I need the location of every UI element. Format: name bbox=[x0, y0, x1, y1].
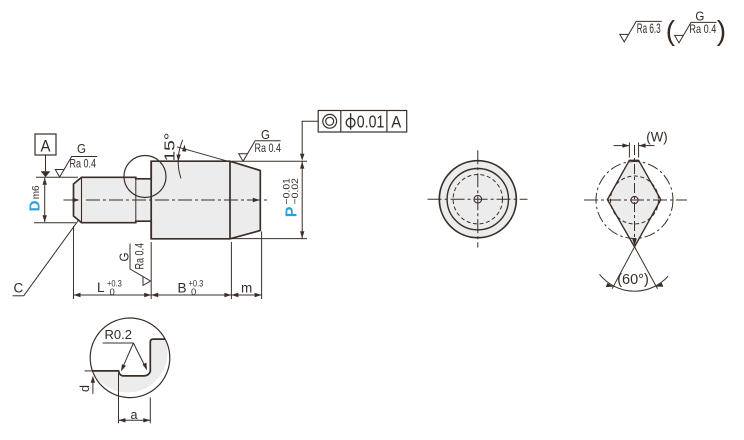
D dim arrow down bbox=[43, 215, 47, 222]
R0.2 leader left arrowline bbox=[122, 343, 133, 369]
B arrow left bbox=[151, 293, 158, 297]
datum filled triangle bbox=[41, 171, 51, 177]
60 degree V right line bbox=[635, 247, 658, 289]
m arrow right bbox=[255, 293, 262, 297]
general roughness note Ra6.3 symbol bbox=[620, 21, 662, 42]
svg-text:(W): (W) bbox=[646, 129, 667, 145]
W arrow right bbox=[639, 143, 646, 147]
surface finish symbol G Ra0.4 on taper bbox=[239, 141, 281, 162]
svg-text:C: C bbox=[14, 281, 24, 296]
detail view profile line bbox=[92, 339, 165, 376]
60 degree arc bbox=[600, 274, 669, 291]
undercut groove wall line bbox=[135, 179, 137, 221]
centerline left arrow bbox=[73, 198, 80, 202]
front view center hole circle bbox=[474, 195, 482, 203]
svg-text:A: A bbox=[391, 114, 401, 132]
centerline right arrow bbox=[253, 198, 260, 202]
L arrow right bbox=[144, 293, 151, 297]
W dimension lines bbox=[614, 145, 630, 147]
front view hidden pin circle bbox=[453, 175, 502, 224]
front view taper face circle bbox=[447, 169, 508, 230]
leader arrow down bbox=[300, 154, 304, 161]
R0.2 leader bar bbox=[103, 342, 134, 344]
P top extension line bbox=[232, 160, 307, 162]
svg-text:m: m bbox=[241, 281, 252, 296]
C leader underline bbox=[13, 295, 24, 297]
svg-text:(60°): (60°) bbox=[617, 272, 649, 288]
detail view balloon circle bbox=[90, 318, 170, 398]
svg-text:Ra 0.4: Ra 0.4 bbox=[689, 22, 716, 36]
svg-text:m6: m6 bbox=[31, 185, 42, 199]
datum stem bbox=[45, 155, 47, 171]
a dimension line bbox=[119, 419, 151, 421]
svg-text:B: B bbox=[178, 281, 187, 296]
svg-text:(: ( bbox=[666, 15, 676, 46]
a left extension line bbox=[118, 373, 120, 423]
D dimension line bbox=[44, 178, 46, 222]
taper start edge line bbox=[229, 161, 231, 239]
a arrow left bbox=[119, 418, 126, 422]
svg-text:Ra 0.4: Ra 0.4 bbox=[255, 141, 282, 155]
diamond pin fill bbox=[607, 160, 660, 247]
diamond center hole bbox=[631, 196, 638, 203]
B/m shared extension bbox=[230, 242, 232, 299]
note G Ra0.4 symbol bbox=[675, 22, 717, 43]
m right extension bbox=[261, 232, 263, 300]
diamond pin outline bbox=[607, 160, 660, 247]
60 degree V left line bbox=[612, 247, 634, 289]
svg-text:A: A bbox=[41, 138, 51, 156]
W extension lines bbox=[628, 143, 630, 158]
concentricity symbol bbox=[323, 114, 337, 128]
diamond horizontal centerline bbox=[584, 199, 687, 201]
svg-text:Ra 6.3: Ra 6.3 bbox=[637, 20, 661, 36]
D dimension top extension line bbox=[36, 176, 78, 178]
diamond view hidden pin circle bbox=[611, 176, 659, 224]
d arrow stem bbox=[92, 380, 94, 394]
svg-text:D: D bbox=[27, 200, 44, 211]
detail balloon circle around undercut bbox=[124, 156, 166, 198]
a right extension line bbox=[149, 398, 151, 424]
P arrow down bbox=[300, 231, 304, 238]
diamond vertical centerline bbox=[634, 145, 636, 240]
front view vertical centerline bbox=[477, 150, 479, 247]
svg-text:G: G bbox=[117, 253, 132, 262]
front view horizontal centerline bbox=[428, 198, 528, 200]
L/B shared extension bbox=[150, 242, 152, 299]
svg-text:0: 0 bbox=[110, 287, 115, 298]
svg-text:a: a bbox=[131, 408, 138, 422]
60 arc left arrow bbox=[606, 283, 614, 287]
svg-text:0.01: 0.01 bbox=[357, 112, 385, 132]
step face edge line bbox=[150, 161, 152, 239]
P bottom extension line bbox=[231, 238, 307, 240]
B arrow right bbox=[224, 293, 231, 297]
svg-text:G: G bbox=[261, 127, 270, 142]
surface finish symbol G Ra0.4 on small pin bbox=[55, 157, 97, 178]
L B m dimension line bbox=[74, 294, 262, 296]
60 arc right arrow bbox=[656, 283, 664, 287]
R0.2 leader right arrowline bbox=[133, 343, 146, 368]
15 degree arc arrow lower bbox=[176, 154, 180, 161]
D dim arrow up bbox=[43, 178, 47, 185]
L dimension extension left bbox=[73, 226, 75, 299]
centerline axis bbox=[64, 199, 269, 201]
feature control frame box bbox=[318, 111, 407, 133]
feature control frame leader bbox=[302, 121, 318, 157]
surface finish symbol G Ra0.4 rotated at step face bbox=[117, 243, 151, 286]
m arrow left bbox=[231, 293, 238, 297]
a arrow right bbox=[143, 418, 150, 422]
pin chamfer edge line bbox=[81, 177, 83, 222]
d top extension line bbox=[85, 370, 98, 372]
15 degree arc bbox=[178, 140, 183, 179]
15 degree arc arrow upper bbox=[182, 145, 186, 152]
svg-text:d: d bbox=[78, 385, 92, 392]
P dimension line bbox=[301, 162, 303, 239]
svg-text:G: G bbox=[77, 141, 86, 156]
P arrow up bbox=[300, 162, 304, 169]
svg-text:Ra 0.4: Ra 0.4 bbox=[133, 243, 147, 270]
datum A box bbox=[35, 134, 56, 155]
pin body side view outline bbox=[74, 161, 261, 239]
svg-text:0: 0 bbox=[191, 287, 196, 298]
d arrow up bbox=[91, 376, 95, 383]
detail view profile fill bbox=[92, 339, 167, 392]
centerline bottom arrow bbox=[632, 239, 636, 246]
front view outer circle bbox=[439, 161, 516, 238]
svg-text:): ) bbox=[717, 15, 726, 46]
C leader line bbox=[24, 220, 79, 296]
svg-text:Ra 0.4: Ra 0.4 bbox=[70, 156, 97, 170]
svg-text:L: L bbox=[97, 280, 105, 295]
svg-text:15°: 15° bbox=[162, 133, 179, 162]
D dimension bottom extension line bbox=[34, 222, 76, 224]
svg-text:P: P bbox=[284, 206, 301, 217]
svg-text:−0.02: −0.02 bbox=[290, 178, 301, 205]
P tolerance bbox=[282, 178, 301, 205]
W arrow left bbox=[622, 143, 629, 147]
svg-text:R0.2: R0.2 bbox=[105, 327, 132, 342]
phi symbol drawn bbox=[346, 118, 355, 127]
15 degree taper extension line bbox=[177, 147, 232, 163]
L arrow left bbox=[74, 293, 81, 297]
diamond view phantom body circle bbox=[596, 162, 673, 239]
